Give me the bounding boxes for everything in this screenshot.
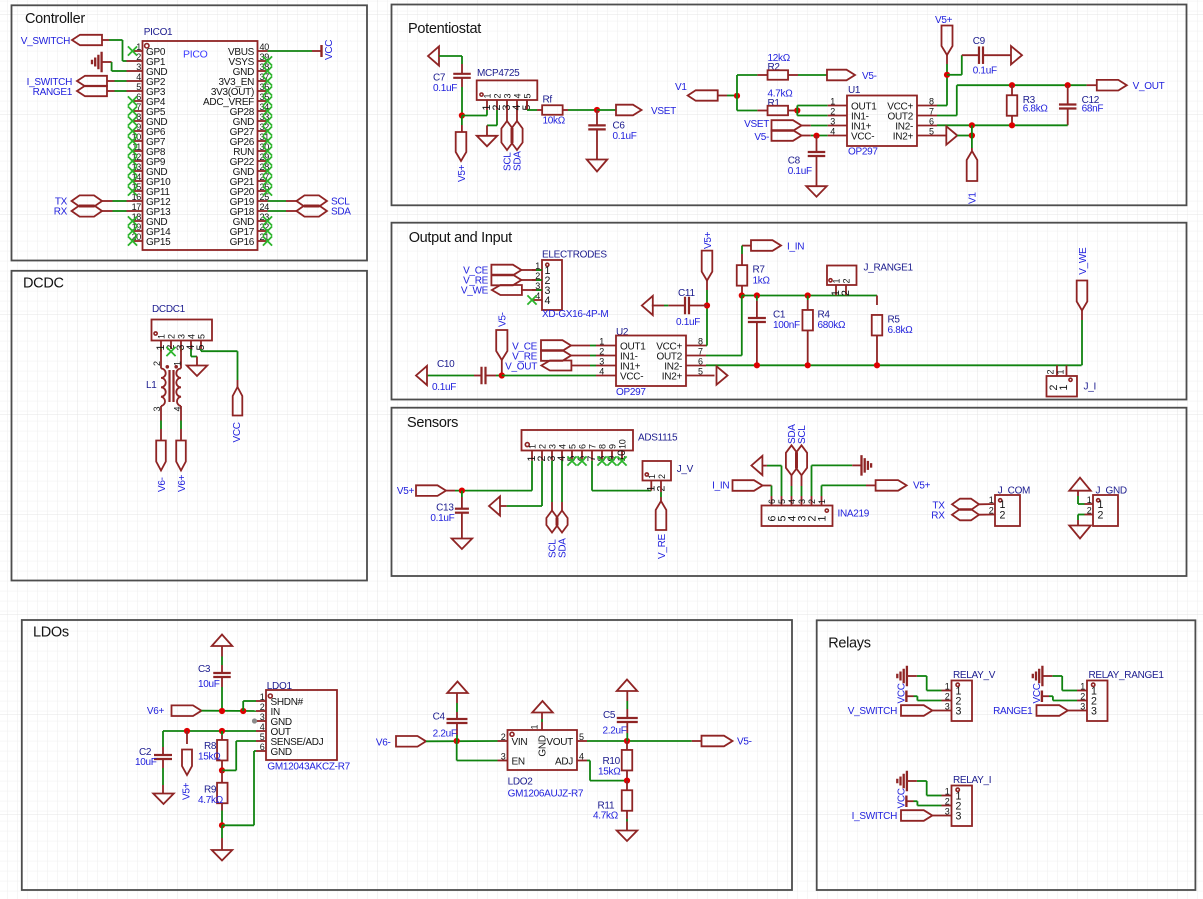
svg-text:3: 3 xyxy=(830,116,835,126)
capacitor C12 labels xyxy=(1082,95,1104,115)
resistor R5 labels xyxy=(888,315,914,337)
svg-text:2: 2 xyxy=(807,499,817,504)
op-amp U2 pin numbers xyxy=(599,336,703,376)
svg-text:6.8kΩ: 6.8kΩ xyxy=(888,325,914,336)
svg-text:3: 3 xyxy=(956,810,962,822)
wire junction to VSET flag xyxy=(597,109,616,111)
wire node to EN xyxy=(457,741,498,761)
hier label SDA vertical sensors xyxy=(556,461,568,558)
svg-text:C10: C10 xyxy=(437,359,455,370)
svg-text:V6-: V6- xyxy=(157,477,168,492)
wire DCDC1 pin4 to ground xyxy=(191,349,197,366)
power flag arrow ground sensors xyxy=(489,496,500,515)
wire V5+ to VCC+ pin8 xyxy=(937,55,947,106)
power flag V5+ below C7 xyxy=(456,116,468,183)
connector J_GND pin numbers xyxy=(1087,495,1092,516)
hier label V6- xyxy=(376,736,426,748)
resistor R11 xyxy=(622,781,633,831)
ic INA219 body xyxy=(762,506,833,527)
svg-text:DCDC1: DCDC1 xyxy=(152,304,186,315)
capacitor C1 labels xyxy=(773,310,800,332)
svg-text:8: 8 xyxy=(698,336,703,346)
junction xyxy=(499,372,505,378)
wire TX to J_COM pin1 xyxy=(979,503,995,505)
power flag triangle above C3 xyxy=(212,635,233,647)
svg-text:RELAY_RANGE1: RELAY_RANGE1 xyxy=(1089,670,1165,681)
ic LDO1 pin names xyxy=(271,697,324,758)
op-amp U1 right pin names xyxy=(887,101,913,142)
connector ELECTRODES pin numbers xyxy=(535,261,540,301)
svg-text:IN2+: IN2+ xyxy=(893,131,914,142)
hier label V_OUT xyxy=(1087,80,1165,92)
wire R7 bottom to node xyxy=(741,286,743,296)
hier label SCL xyxy=(286,195,350,207)
svg-text:2.2uF: 2.2uF xyxy=(603,726,627,737)
power flag V5+ top xyxy=(935,15,953,55)
svg-text:2: 2 xyxy=(493,94,503,99)
power flag triangle up J_GND xyxy=(1069,478,1091,491)
svg-text:2: 2 xyxy=(945,796,950,806)
connector RELAY_I pin names xyxy=(956,790,962,822)
svg-text:V5+: V5+ xyxy=(397,486,415,497)
svg-text:VCC-: VCC- xyxy=(851,131,874,142)
wire IN2+ with power arrow xyxy=(937,126,972,144)
wire V_SWITCH to GP1 xyxy=(102,40,133,61)
svg-text:2: 2 xyxy=(1046,370,1056,375)
junction xyxy=(219,822,225,828)
hier label SCL vertical sensors xyxy=(546,461,558,558)
capacitor C10 labels xyxy=(432,359,456,393)
hier label SCL vertical xyxy=(501,110,513,171)
svg-text:2: 2 xyxy=(830,106,835,116)
svg-text:6: 6 xyxy=(698,356,703,366)
svg-text:VOUT: VOUT xyxy=(546,737,573,748)
svg-text:1: 1 xyxy=(260,692,265,702)
resistor R2 xyxy=(757,70,798,80)
svg-text:R8: R8 xyxy=(204,741,217,752)
svg-text:6: 6 xyxy=(929,116,934,126)
svg-text:1: 1 xyxy=(830,96,835,106)
junction xyxy=(969,132,975,138)
junction xyxy=(704,302,710,308)
hier label SDA vertical xyxy=(511,110,523,171)
junction xyxy=(754,362,760,368)
wire junction to U2 VCC- xyxy=(502,375,596,377)
svg-text:PICO1: PICO1 xyxy=(144,27,173,38)
junction xyxy=(1009,82,1015,88)
svg-text:R1: R1 xyxy=(768,98,781,109)
resistor R1 labels xyxy=(768,89,794,110)
hier label V_CE to electrode 1 xyxy=(463,265,521,277)
svg-text:Sensors: Sensors xyxy=(407,415,458,431)
svg-text:C8: C8 xyxy=(788,156,801,167)
hier label V1 xyxy=(675,82,718,101)
svg-text:V6+: V6+ xyxy=(177,474,188,492)
junction xyxy=(874,362,880,368)
capacitor C11 xyxy=(652,297,707,315)
connector J_COM body xyxy=(995,495,1020,526)
wire V_RE to pin2 xyxy=(522,279,543,281)
wire DCDC1 pin5 to VCC xyxy=(201,349,238,387)
svg-text:DCDC: DCDC xyxy=(23,276,64,292)
svg-text:10kΩ: 10kΩ xyxy=(543,116,566,127)
svg-text:10uF: 10uF xyxy=(135,757,157,768)
ic LDO2 pin names xyxy=(512,735,574,767)
power flag V6- xyxy=(156,441,168,493)
junction xyxy=(219,728,225,734)
svg-text:XD-GX16-4P-M: XD-GX16-4P-M xyxy=(542,309,608,320)
resistor R7 labels xyxy=(753,265,771,287)
capacitor C9 xyxy=(978,46,980,64)
junction xyxy=(754,292,760,298)
power flag V5- above C10 xyxy=(496,312,508,360)
svg-text:1: 1 xyxy=(1058,385,1070,391)
ground symbol below C6 xyxy=(587,160,608,172)
wire I_SWITCH to RELAY_I pin3 xyxy=(932,815,941,817)
junction xyxy=(219,767,225,773)
svg-text:V6-: V6- xyxy=(376,737,391,748)
svg-text:1: 1 xyxy=(817,499,827,504)
power flag VCC DCDC xyxy=(232,387,243,443)
junction xyxy=(594,107,600,113)
section box Sensors xyxy=(392,408,1187,576)
resistor Rf labels xyxy=(543,95,566,127)
svg-text:VCC: VCC xyxy=(324,40,335,60)
svg-text:SDA: SDA xyxy=(558,538,569,558)
wire L1 pin3 to V6- xyxy=(160,421,162,441)
ground symbol RELAY_I xyxy=(896,779,898,784)
svg-text:5: 5 xyxy=(568,444,578,449)
ic PICO1 right pin numbers xyxy=(260,42,270,242)
connector RELAY_RANGE1 body xyxy=(1087,681,1108,722)
svg-text:4.7kΩ: 4.7kΩ xyxy=(593,811,619,822)
junction xyxy=(240,708,246,714)
ground symbol below R11 xyxy=(617,831,638,842)
svg-text:4: 4 xyxy=(260,722,265,732)
svg-text:0.1uF: 0.1uF xyxy=(433,83,457,94)
svg-text:4.7kΩ: 4.7kΩ xyxy=(198,795,224,806)
wire IN2- node xyxy=(937,124,1068,126)
svg-text:8: 8 xyxy=(598,444,608,449)
hier label I_IN sensors xyxy=(712,480,762,491)
wire IN2+ with power arrow xyxy=(706,366,728,384)
power flag triangle above LDO2 GND xyxy=(532,701,553,713)
resistor R7 xyxy=(737,265,748,286)
wire ADS1115 pin2 to ground arrow xyxy=(500,461,542,506)
hier label V_CE to U2 xyxy=(512,340,571,352)
svg-text:Controller: Controller xyxy=(25,11,85,27)
wire TX to GP12 xyxy=(113,200,133,202)
connector RELAY_I pin numbers xyxy=(945,786,950,816)
connector RELAY_V body xyxy=(952,681,973,722)
svg-text:3: 3 xyxy=(956,705,962,717)
hier label I_IN xyxy=(751,240,804,252)
capacitor C8 xyxy=(808,136,826,187)
svg-text:C5: C5 xyxy=(603,710,616,721)
power flag arrow left of C7 xyxy=(428,46,439,65)
connector J_V pin names xyxy=(646,486,668,492)
svg-text:1: 1 xyxy=(989,495,994,505)
wire V1 node down xyxy=(971,125,973,150)
svg-text:4: 4 xyxy=(558,444,568,449)
svg-text:GND: GND xyxy=(538,735,549,756)
ic ADS1115 pin numbers xyxy=(528,439,628,449)
resistor Rf xyxy=(542,105,563,115)
svg-text:EN: EN xyxy=(512,756,525,767)
power flag VCC at VBUS xyxy=(312,40,335,60)
hier label VSET input to U1 xyxy=(744,119,801,131)
no-connect ELECTRODES pin4 xyxy=(527,295,536,304)
connector J_RANGE1 pin stubs xyxy=(836,285,846,296)
junction xyxy=(459,488,465,494)
svg-text:2: 2 xyxy=(167,334,177,339)
svg-text:680kΩ: 680kΩ xyxy=(818,320,846,331)
ground symbol below C2 xyxy=(153,794,174,805)
svg-text:V5+: V5+ xyxy=(703,231,714,249)
capacitor C6 labels xyxy=(613,121,637,143)
svg-text:0.1uF: 0.1uF xyxy=(973,65,997,76)
svg-text:15kΩ: 15kΩ xyxy=(598,767,621,778)
junction xyxy=(624,778,630,784)
svg-text:J_V: J_V xyxy=(677,464,694,475)
svg-text:2: 2 xyxy=(599,346,604,356)
resistor R3 xyxy=(1007,85,1018,125)
svg-text:J_I: J_I xyxy=(1084,382,1096,393)
svg-text:VCC: VCC xyxy=(897,683,908,703)
ic MCP4725 pin stubs xyxy=(487,100,527,110)
op-amp U2 right pin names xyxy=(656,341,682,382)
hier label V5+ INA219 xyxy=(876,480,931,492)
svg-text:3: 3 xyxy=(177,334,187,339)
ground symbol below C8 xyxy=(806,186,827,197)
svg-text:1: 1 xyxy=(945,681,950,691)
hier label RANGE1 xyxy=(993,705,1068,717)
svg-text:V5+: V5+ xyxy=(182,782,193,800)
svg-text:V_SWITCH: V_SWITCH xyxy=(848,706,897,717)
svg-text:R9: R9 xyxy=(204,785,217,796)
svg-text:RELAY_V: RELAY_V xyxy=(953,670,996,681)
svg-text:6.8kΩ: 6.8kΩ xyxy=(1023,104,1049,115)
junction xyxy=(184,728,190,734)
svg-text:SDA: SDA xyxy=(513,151,524,171)
connector RELAY_I pin stubs xyxy=(942,796,952,816)
connector RELAY_RANGE1 pin names xyxy=(1091,685,1097,717)
connector J_I pin numbers xyxy=(1046,370,1066,375)
svg-text:V5-: V5- xyxy=(737,737,752,748)
svg-text:2: 2 xyxy=(1098,510,1104,522)
ic DCDC1 pin names xyxy=(155,345,207,351)
svg-text:C3: C3 xyxy=(198,664,211,675)
ic ADS1115 pin stubs xyxy=(532,451,622,461)
junction xyxy=(219,708,225,714)
wire ground to RELAY_I pin1 xyxy=(917,781,942,796)
junction xyxy=(813,133,819,139)
resistor R10 xyxy=(622,741,633,781)
svg-text:3: 3 xyxy=(503,94,513,99)
connector RELAY_RANGE1 pin numbers xyxy=(1080,681,1085,711)
ic LDO2 pin stubs xyxy=(498,713,588,761)
power flag triangle above C5 xyxy=(617,680,638,692)
svg-text:C13: C13 xyxy=(436,503,454,514)
capacitor C12 xyxy=(1059,85,1077,125)
svg-text:17: 17 xyxy=(132,202,142,212)
capacitor C5 xyxy=(617,691,638,741)
wire V_WE to pin3 xyxy=(522,289,542,291)
ground symbol below R9 xyxy=(212,850,233,861)
ground symbol at GP2 GND xyxy=(91,60,93,65)
hier label V5- LDO2 xyxy=(702,736,752,748)
svg-text:4: 4 xyxy=(579,751,584,761)
ic MCP4725 pin numbers xyxy=(483,94,533,99)
hier label V_RE to U2 xyxy=(512,350,571,362)
svg-text:C11: C11 xyxy=(678,288,695,299)
svg-text:7: 7 xyxy=(698,346,703,356)
capacitor C13 labels xyxy=(430,503,454,524)
svg-text:6: 6 xyxy=(767,499,777,504)
svg-text:0.1uF: 0.1uF xyxy=(676,317,700,328)
ic LDO1 body xyxy=(266,690,337,760)
hier label V6+ xyxy=(147,705,202,717)
svg-text:I_SWITCH: I_SWITCH xyxy=(852,811,897,822)
svg-text:5: 5 xyxy=(197,334,207,339)
wire V1 to junction xyxy=(718,95,737,97)
connector J_V body xyxy=(643,461,672,481)
svg-text:3: 3 xyxy=(599,356,604,366)
wire VCC to RELAY_RANGE1 pin2 xyxy=(1049,696,1077,700)
resistor R9 labels xyxy=(198,785,224,806)
wire R9 node to GND pin6 xyxy=(222,751,256,825)
svg-text:4: 4 xyxy=(545,295,551,307)
capacitor C10 xyxy=(474,367,502,385)
wire ADJ to R10 node xyxy=(587,761,627,781)
op-amp U1 body xyxy=(847,96,917,147)
capacitor C13 xyxy=(455,491,469,539)
svg-text:4: 4 xyxy=(599,366,604,376)
wire V_CE to pin1 xyxy=(522,269,543,271)
svg-text:7: 7 xyxy=(588,444,598,449)
power flag V6+ xyxy=(176,441,188,493)
svg-text:VCC: VCC xyxy=(232,422,243,442)
svg-text:1: 1 xyxy=(157,334,167,339)
junction xyxy=(459,112,465,118)
hier label V_WE to electrode 3 xyxy=(461,285,522,297)
svg-text:1: 1 xyxy=(817,516,829,522)
svg-text:V5+: V5+ xyxy=(935,15,953,26)
svg-text:2.2uF: 2.2uF xyxy=(433,729,457,740)
svg-text:4: 4 xyxy=(787,499,797,504)
svg-text:1: 1 xyxy=(1087,495,1092,505)
svg-text:Rf: Rf xyxy=(543,95,553,106)
connector ELECTRODES pin names xyxy=(545,265,551,307)
svg-text:0.1uF: 0.1uF xyxy=(430,513,454,524)
ground symbol DCDC xyxy=(187,366,208,377)
junction xyxy=(734,93,740,99)
section box LDOs xyxy=(22,620,792,890)
svg-text:3: 3 xyxy=(945,806,950,816)
capacitor C11 labels xyxy=(676,288,700,328)
svg-text:V_OUT: V_OUT xyxy=(505,361,537,372)
wire J_GND pin2 to ground xyxy=(1078,515,1085,526)
section box Output and Input xyxy=(392,223,1187,400)
wire R8 node to SENSE/ADJ xyxy=(222,741,256,770)
ic DCDC1 pin numbers xyxy=(157,334,207,339)
svg-text:3: 3 xyxy=(548,444,558,449)
svg-text:1: 1 xyxy=(1056,370,1066,375)
wire GP18 to SDA xyxy=(268,210,287,212)
svg-text:V5+: V5+ xyxy=(457,164,468,182)
svg-text:V_SWITCH: V_SWITCH xyxy=(21,36,70,47)
connector J_I body xyxy=(1047,376,1078,397)
svg-text:1: 1 xyxy=(599,336,604,346)
ic LDO2 body xyxy=(508,730,578,770)
wire L1 pin4 to V6+ xyxy=(180,421,182,441)
wire INA219 pin1 to V5+ xyxy=(822,485,876,496)
op-amp U2 pin stubs xyxy=(596,346,706,376)
svg-text:L1: L1 xyxy=(146,380,157,391)
wire MCP4725 pin2 to ground xyxy=(487,110,497,136)
ground symbol RELAY_V xyxy=(896,674,898,679)
connector J_I pin names xyxy=(1048,385,1070,391)
svg-text:10uF: 10uF xyxy=(198,679,220,690)
svg-text:R7: R7 xyxy=(753,265,766,276)
svg-text:1: 1 xyxy=(1080,681,1085,691)
hier label TX sensors xyxy=(932,499,979,512)
svg-text:VCC: VCC xyxy=(1032,683,1043,703)
wire C7 bottom to junction xyxy=(461,78,463,116)
svg-text:4: 4 xyxy=(187,334,197,339)
svg-text:U1: U1 xyxy=(848,85,861,96)
svg-text:SCL: SCL xyxy=(797,425,808,444)
svg-text:V_WE: V_WE xyxy=(461,286,489,297)
svg-text:4: 4 xyxy=(830,126,835,136)
svg-text:5: 5 xyxy=(579,732,584,742)
svg-text:5: 5 xyxy=(929,126,934,136)
wire VCC to RELAY_V pin2 xyxy=(914,696,942,700)
hier label VSET output xyxy=(616,105,676,117)
svg-text:4: 4 xyxy=(513,94,523,99)
connector J_RANGE1 pin numbers xyxy=(832,279,852,284)
hier label V_RE to electrode 2 xyxy=(463,275,521,287)
capacitor C3 xyxy=(213,672,231,674)
ic PICO1 left pin names xyxy=(146,47,171,248)
svg-text:1: 1 xyxy=(832,279,842,284)
svg-text:RANGE1: RANGE1 xyxy=(993,706,1033,717)
resistor R3 labels xyxy=(1023,95,1049,115)
svg-text:2: 2 xyxy=(989,506,994,516)
wire INA219 pin2 to earth ground xyxy=(812,465,862,496)
svg-text:5: 5 xyxy=(136,82,141,92)
svg-text:2: 2 xyxy=(1000,510,1006,522)
connector J_V pin numbers xyxy=(647,474,667,479)
power flag arrow left INA219 xyxy=(751,456,762,475)
svg-text:15kΩ: 15kΩ xyxy=(198,752,221,763)
hier label I_SWITCH xyxy=(852,810,933,822)
svg-text:5: 5 xyxy=(777,499,787,504)
ground symbol below MCP4725 xyxy=(477,136,498,147)
wire V_SWITCH to RELAY_V pin3 xyxy=(932,710,941,712)
svg-text:2: 2 xyxy=(136,52,141,62)
svg-text:8: 8 xyxy=(929,96,934,106)
svg-text:3: 3 xyxy=(260,712,265,722)
svg-text:OP297: OP297 xyxy=(616,387,646,398)
svg-text:LDO2: LDO2 xyxy=(508,776,534,787)
resistor R1 xyxy=(757,106,797,116)
svg-text:2: 2 xyxy=(657,474,667,479)
svg-text:9: 9 xyxy=(608,444,618,449)
wire OUT node xyxy=(163,730,256,732)
ic PICO1 body xyxy=(143,41,258,250)
svg-text:10: 10 xyxy=(618,439,628,449)
